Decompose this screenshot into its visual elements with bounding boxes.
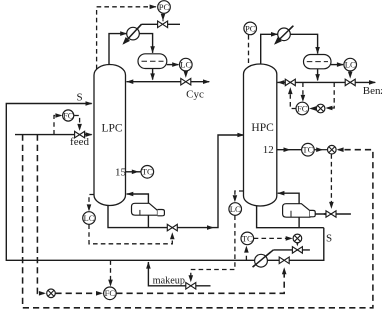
wire: makeup line [146, 262, 210, 286]
LPC condenser coolant diagonal [125, 24, 142, 42]
wire: TC5 to multiplier X3 (dashed) [254, 236, 293, 241]
wire: HPC reboiler vapor return [277, 191, 299, 204]
wire: LPC reboiler vapor return [126, 192, 148, 204]
HPC reflux drum [304, 55, 332, 69]
svg-text:feed: feed [70, 136, 89, 148]
svg-text:TC: TC [242, 233, 253, 243]
svg-text:FC: FC [297, 103, 308, 113]
label Benz [363, 85, 382, 97]
wire: HPC reboiler steam line [315, 212, 351, 217]
wire: feed line into LPC [15, 132, 93, 137]
wire: S temperature measurement to TC5 (dashed) [244, 246, 249, 261]
svg-text:12: 12 [263, 144, 274, 156]
wire: LPC distillate / reflux line to Cyc [126, 79, 210, 84]
controller PC1 (LPC pressure) [158, 1, 171, 14]
controller LC4 (HPC sump level) [229, 203, 242, 216]
wire: X2 output to steam valve (dashed) [329, 154, 334, 209]
controller TC5 (S line temperature) [241, 232, 254, 245]
svg-text:TC: TC [142, 167, 153, 177]
label Cyc [186, 89, 204, 101]
wire: reflux flow measurement to FC4 (dashed) [301, 82, 306, 102]
wire: LC4 output to makeup valve (dashed) [189, 215, 235, 282]
LPC condenser [127, 27, 140, 40]
wire: TC utility line through heat exchanger [253, 250, 310, 267]
column LPC vessel [94, 65, 126, 206]
svg-text:Benz: Benz [363, 85, 382, 97]
wire: S recycle line from HPC bottoms to LPC [6, 101, 324, 260]
wire: HPC overhead vapor line to condenser [261, 32, 320, 65]
svg-text:PC: PC [159, 2, 170, 12]
wire: distillate flow tap to X1 (dashed) [325, 82, 334, 110]
svg-text:LC: LC [230, 204, 241, 214]
valve: Benz product valve [345, 79, 355, 86]
svg-text:15: 15 [115, 166, 127, 178]
wire: FC1 output to feed valve (dashed) [74, 116, 82, 131]
wire: LPC condenser coolant line with PC valve [122, 24, 180, 45]
controller FC1 (feed flow) [63, 110, 74, 121]
S cooler diagonal [253, 252, 271, 267]
label S (recycle into LPC) [76, 91, 82, 103]
wire: HPC reflux drum outlet down [315, 69, 320, 81]
HPC condenser coolant diagonal [276, 26, 292, 42]
wire: HPC pressure measurement to PC2 (dashed) [248, 35, 250, 67]
S cooler heat exchanger [255, 254, 268, 267]
svg-text:FC: FC [105, 288, 116, 298]
svg-text:HPC: HPC [251, 122, 274, 134]
wire: HPC bottoms line [257, 205, 324, 228]
wire: LC2 output to bottoms valve (dashed) [89, 224, 175, 243]
wire: tray 15 to TC [126, 170, 142, 175]
wire: feed forward tap to X4 (dashed) [37, 135, 46, 296]
valve: feed valve [75, 131, 85, 138]
wire: LPC pressure measurement to PC1 (dashed) [97, 5, 157, 70]
valve: HPC reflux valve [285, 79, 295, 86]
svg-text:PC: PC [245, 23, 256, 33]
wire: X4 to FC5 (dashed) [55, 291, 103, 296]
wire: HPC sump level measurement to LC4 (dashed) [233, 191, 244, 202]
label LPC [101, 122, 122, 134]
multiplier X2 [328, 145, 337, 154]
multiplier X1 [316, 104, 325, 113]
LPC reflux drum [138, 54, 167, 69]
controller TC3 (LPC tray 15 temperature) [141, 166, 154, 179]
svg-text:FC: FC [63, 111, 74, 120]
HPC condenser [278, 28, 291, 41]
multiplier X4 [47, 289, 56, 298]
controller TC4 (HPC tray 12 temperature) [302, 143, 315, 156]
valve: Cyc product valve [181, 78, 191, 85]
multiplier X3 [293, 234, 302, 243]
label feed [70, 136, 89, 148]
svg-text:makeup: makeup [153, 275, 185, 286]
svg-text:LPC: LPC [101, 122, 122, 134]
wire: LPC reflux drum outlet down [150, 69, 155, 81]
svg-text:S: S [76, 91, 82, 103]
controller LC1 (LPC drum level) [180, 58, 193, 71]
wire: PC1 output to coolant valve [161, 14, 166, 22]
svg-text:Cyc: Cyc [186, 89, 204, 101]
wire: HPC distillate / reflux line to Benz [277, 80, 376, 85]
wire: drum2 to LC3 [331, 62, 344, 67]
controller FC5 (S flow) [104, 287, 117, 300]
wire: drum to LC1 [167, 62, 179, 67]
column HPC vessel [244, 64, 277, 206]
wire: FC5 output to S valve (dashed) [116, 267, 286, 293]
HPC reboiler [283, 204, 316, 218]
wire: multiplier X1 to FC4 (dashed) [309, 106, 316, 111]
wire: S flow measurement to FC5 (dashed) [108, 260, 113, 286]
controller LC2 (LPC sump level) [83, 212, 96, 225]
wire: tray 12 to TC [277, 147, 302, 152]
label HPC [251, 122, 274, 134]
valve: HPC reboiler steam valve [326, 211, 336, 218]
label makeup [153, 275, 185, 286]
valve: S recycle valve [279, 257, 289, 264]
svg-text:S: S [326, 232, 332, 244]
label S (HPC bottoms) [326, 232, 332, 244]
valve: LPC condenser coolant valve [158, 21, 168, 28]
valve: TC utility valve [292, 247, 302, 254]
label 15 [115, 166, 127, 178]
controller PC2 (HPC pressure) [244, 22, 257, 35]
label 12 [263, 144, 274, 156]
wire: HPC condenser coolant arrow [274, 26, 293, 45]
wire: TC4 to multiplier X2 [314, 147, 327, 152]
wire: LPC bottoms line [108, 133, 244, 230]
svg-text:LC: LC [84, 213, 95, 223]
wire: FC4 output to reflux valve (dashed) [288, 87, 296, 108]
controller LC3 (HPC drum level) [344, 58, 357, 71]
svg-text:LC: LC [345, 60, 356, 70]
wire: feed flow measurement to FC1 (dashed) [54, 113, 62, 134]
controller FC4 (reflux flow) [296, 102, 309, 115]
wire: feed forward outer loop to X2 (dashed) [23, 135, 373, 308]
wire: X3 output to utility valve (dashed) [295, 239, 300, 246]
wire: LPC overhead vapor line to condenser [109, 31, 155, 65]
valve: LPC bottoms valve [167, 224, 177, 231]
valve: makeup valve [186, 283, 196, 290]
LPC reboiler [132, 203, 165, 216]
wire: LC3 output to Benz valve (dashed) [348, 71, 353, 78]
wire: LPC sump level measurement to LC2 (dashed) [87, 195, 94, 212]
svg-text:TC: TC [302, 145, 313, 155]
wire: LC1 output to Cyc valve (dashed) [184, 71, 189, 78]
svg-text:LC: LC [180, 60, 191, 70]
wire: HPC reboiler bottom tee [298, 217, 300, 228]
wire: LPC reboiler bottom tee [147, 215, 149, 228]
